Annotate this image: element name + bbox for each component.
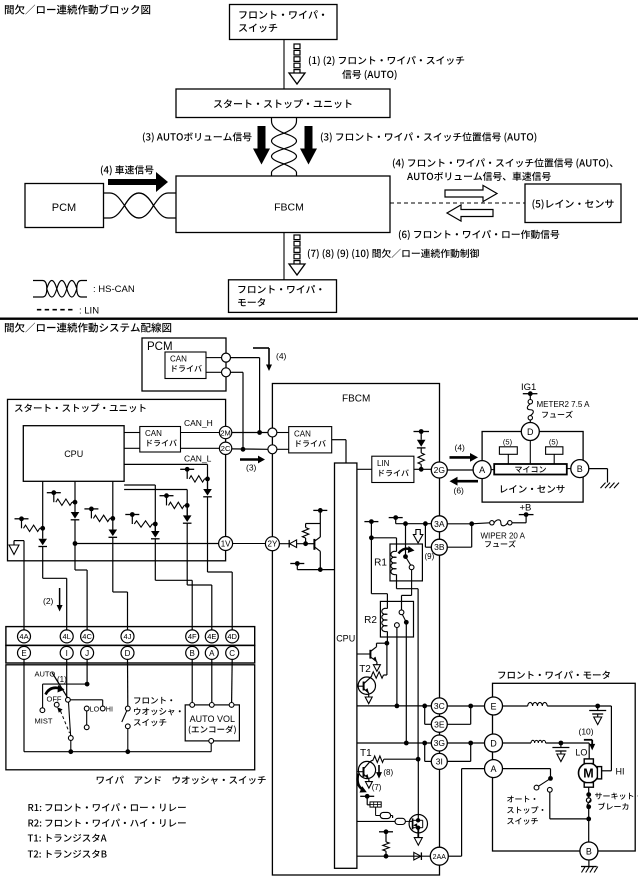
svg-text:C: C — [229, 649, 235, 658]
washer switch — [125, 706, 130, 711]
wire 2G to sensor A — [447, 469, 473, 471]
rain sensor pin D — [521, 423, 539, 441]
box: CAN driver (FBCM) — [289, 427, 332, 453]
transistor T2 (first stage NPN) — [357, 653, 371, 655]
svg-text:(9): (9) — [425, 552, 435, 561]
relay R2 — [380, 601, 413, 637]
wire CAN driver to 2C — [181, 447, 220, 449]
hollow arrow left (6) — [447, 205, 493, 221]
wire CPU to LIN driver — [357, 468, 372, 470]
svg-text:: LIN: : LIN — [79, 306, 99, 317]
connector 1V — [219, 537, 233, 551]
2AA line with diode — [357, 855, 430, 857]
svg-text:IG1: IG1 — [521, 382, 536, 393]
pull-up resistor + clamp diode cell 5 — [160, 495, 174, 497]
svg-text:CAN: CAN — [170, 355, 187, 364]
svg-text:LO: LO — [90, 704, 100, 713]
junction T1/relay bus/MOSFET drain — [416, 757, 421, 762]
box: start-stop unit — [8, 399, 226, 560]
connector pin B — [186, 646, 199, 659]
pull-up resistor + clamp diode cell 2 — [47, 492, 61, 494]
label front washer switch — [134, 697, 172, 704]
pull-up resistor + clamp diode cell 1 — [15, 518, 29, 520]
svg-text:CAN_H: CAN_H — [184, 418, 213, 428]
motor pin E — [485, 697, 503, 715]
wire to R2 coil — [370, 538, 372, 594]
connector 2Y — [265, 537, 279, 551]
svg-text:4F: 4F — [188, 632, 197, 641]
lower pivot contact — [70, 740, 72, 751]
svg-text:4E: 4E — [207, 632, 216, 641]
box: front wiper switch — [230, 5, 338, 40]
wire LIN driver to 2G — [414, 468, 431, 470]
B to chassis ground — [588, 860, 590, 867]
connector pin 4J — [121, 630, 134, 643]
wire col2 to 4C — [74, 544, 76, 571]
wire FBCM to motor — [283, 233, 285, 280]
curved rotation arrow — [46, 688, 61, 695]
connector 3B — [431, 539, 447, 555]
D branch: choke + capacitor + LO brush — [503, 742, 532, 744]
wire col2 to 1V line — [74, 520, 76, 544]
connector row housings — [6, 627, 255, 646]
rail AUTO/J — [43, 683, 88, 685]
connector 2AA — [430, 847, 448, 865]
label (1)(2) front wiper switch signal — [309, 56, 464, 66]
svg-text:E: E — [490, 701, 496, 711]
connector pin 4C — [81, 630, 94, 643]
driver gate 1 (capsule) — [366, 796, 368, 805]
rain sensor pin A — [473, 461, 491, 479]
svg-text:(5): (5) — [549, 438, 559, 447]
R1 contact to R2 — [411, 570, 413, 596]
pull-up resistor + clamp diode cell 4 — [125, 514, 139, 516]
R1 curved arrow — [399, 549, 412, 554]
legend R1/R2/T1/T2 — [28, 803, 185, 811]
contact OFF — [66, 697, 71, 702]
box: CPU (start-stop) — [23, 426, 124, 482]
box: rain sensor — [482, 432, 583, 503]
connector 2G — [431, 462, 447, 478]
svg-text:T2: T2 — [359, 664, 371, 675]
label auto stop switch — [507, 796, 535, 803]
(8) arrow — [378, 765, 380, 773]
svg-text:METER2 7.5 A: METER2 7.5 A — [537, 400, 591, 409]
svg-text:M: M — [583, 767, 593, 781]
svg-text:CAN: CAN — [294, 430, 311, 439]
wire 3C to E — [447, 705, 484, 707]
svg-text:PCM: PCM — [147, 341, 173, 353]
R1 switch common — [403, 554, 408, 559]
svg-text:I: I — [66, 649, 68, 658]
connector 2M — [219, 426, 231, 438]
dashed LIN line FBCM to rain sensor — [390, 202, 525, 204]
E branch: choke + capacitor + HI brush — [503, 705, 528, 707]
svg-text:(5): (5) — [503, 438, 513, 447]
svg-text:(4): (4) — [455, 443, 466, 453]
hollow arrow right (4) — [445, 185, 497, 201]
rain sensor pin B — [571, 460, 589, 478]
wire to R1 coil — [371, 537, 396, 539]
wire col3 to 4J — [112, 537, 114, 592]
connector pin 4F — [186, 630, 199, 643]
switch arm to AUTO — [52, 673, 68, 699]
svg-text:B: B — [586, 846, 592, 856]
svg-text:2Y: 2Y — [268, 540, 278, 549]
svg-text:CAN_L: CAN_L — [184, 454, 212, 464]
wire CPU to gate — [357, 820, 395, 822]
svg-text:FBCM: FBCM — [274, 202, 304, 214]
svg-text:WIPER 20 A: WIPER 20 A — [481, 532, 526, 541]
striped signal arrow (1)(2) — [294, 44, 300, 49]
svg-text:3G: 3G — [434, 738, 445, 748]
wire CPU to col5 — [124, 489, 187, 491]
wire PCM CAN_L to 2C net — [231, 371, 244, 373]
box: start-stop unit — [176, 89, 390, 118]
striped signal arrow (7)-(10) — [294, 235, 300, 240]
svg-text:2C: 2C — [221, 444, 231, 453]
label circuit breaker — [595, 793, 638, 800]
(9) hollow arrow — [413, 530, 423, 544]
internal ground (open triangle) — [13, 541, 15, 545]
svg-text:T1: T1 — [360, 748, 372, 759]
wire 2C to FBCM — [232, 448, 268, 450]
title: block diagram — [5, 4, 150, 14]
wire CPU to col6 — [124, 463, 207, 465]
wire R2 NC to 3C — [396, 628, 398, 706]
+B / WIPER fuse — [447, 523, 471, 525]
connector pin 4L — [60, 630, 73, 643]
wire CAN driver to pin — [206, 357, 222, 359]
connector pin A — [205, 646, 218, 659]
junction 2C/PCM — [241, 447, 246, 452]
connector 3C — [431, 698, 447, 714]
diode at 2Y (cathode left) — [288, 540, 290, 548]
thick arrow down right (3) — [300, 126, 317, 165]
legend HS-CAN twisted pair symbol — [33, 281, 87, 298]
title: system wiring diagram — [5, 323, 171, 333]
svg-text:(3): (3) — [246, 463, 257, 473]
diode to 2AA — [414, 852, 421, 860]
wire gnd to 4A — [23, 541, 25, 630]
label (3) AUTO volume signal — [143, 132, 252, 142]
FBCM pin circle CAN_L — [268, 445, 277, 454]
arrow (3) — [240, 456, 265, 464]
svg-text:4L: 4L — [63, 632, 71, 641]
connector pin 4A — [18, 630, 31, 643]
svg-text:3C: 3C — [434, 701, 445, 711]
3E tie to 3C — [424, 706, 426, 724]
wire CPU to col4 — [124, 484, 155, 486]
label front wiper motor — [498, 671, 610, 679]
box: front wiper motor — [493, 683, 636, 851]
junction R2 coil / T2 collector — [385, 641, 390, 646]
svg-text:HI: HI — [106, 704, 113, 713]
3G/3I lines — [357, 742, 431, 744]
svg-text:MIST: MIST — [35, 717, 53, 726]
svg-text:FBCM: FBCM — [342, 394, 370, 405]
box: microcomputer — [494, 464, 567, 475]
motor pin B — [580, 842, 598, 860]
MOSFET (circled) — [409, 815, 427, 833]
svg-text:4J: 4J — [124, 632, 132, 641]
wire col4 to 4F — [154, 539, 156, 581]
svg-text:R2: R2 — [364, 615, 377, 626]
svg-text:(8): (8) — [383, 768, 393, 777]
svg-text:OFF: OFF — [47, 695, 62, 704]
relay R1 — [390, 544, 422, 581]
svg-text:A: A — [490, 764, 496, 774]
box: LIN driver — [372, 456, 414, 482]
label (7)-(10) control — [308, 249, 479, 259]
svg-text:+B: +B — [520, 503, 532, 514]
svg-text:1V: 1V — [221, 540, 231, 549]
resistor stub near 2AA — [379, 831, 393, 833]
PCM pin circle lower — [222, 368, 231, 377]
svg-text:A: A — [209, 649, 215, 658]
wire R1 contact bus down to T1/MOSFET — [417, 589, 419, 760]
svg-text:2M: 2M — [220, 428, 230, 437]
wire CAN driver to CPU — [332, 439, 346, 441]
wire 3G to D — [447, 742, 484, 744]
wire PCM CAN_H to 2M net — [231, 357, 260, 359]
thick arrow down left (3) — [253, 126, 270, 165]
wire 3A bus to 3B — [424, 524, 426, 548]
svg-text:4D: 4D — [227, 632, 237, 641]
T1 thick curved arrow — [358, 774, 363, 790]
svg-text:AUTO VOL: AUTO VOL — [190, 714, 235, 724]
thick arrow (4) vehicle speed — [108, 172, 168, 192]
R1 coil bottom wire — [396, 575, 398, 589]
connector 3E — [431, 716, 447, 732]
svg-text:(2): (2) — [43, 596, 54, 606]
connector pin 4E — [205, 630, 218, 643]
svg-text:B: B — [577, 464, 583, 474]
section divider — [0, 318, 638, 320]
svg-text:E: E — [21, 649, 26, 658]
label (4) vehicle speed signal — [101, 165, 154, 175]
box: CAN driver (start-stop) — [140, 427, 181, 453]
T2 second stage transistor (circled) — [372, 672, 384, 678]
label (3) switch position signal — [321, 132, 536, 142]
bottom rail — [24, 751, 211, 753]
box: FBCM — [272, 384, 439, 876]
3I external tie — [447, 760, 470, 762]
box: PCM (block diagram) — [25, 184, 104, 228]
HS-CAN twisted pair between PCM and FBCM — [104, 193, 177, 218]
wire D to microcomputer — [529, 441, 531, 465]
connector 3G — [431, 735, 447, 751]
label wiper and washer switch — [97, 776, 266, 785]
svg-text:3E: 3E — [434, 719, 445, 729]
box: CPU (FBCM tall) — [335, 463, 357, 868]
dashed alternate arm — [61, 711, 70, 733]
arrow (4) at 2G — [450, 453, 479, 462]
box: wiper and washer switch — [6, 665, 255, 770]
wire switch to start-stop unit — [283, 40, 285, 90]
connector pin D — [121, 646, 134, 659]
svg-text:(10): (10) — [579, 727, 594, 737]
box: front wiper motor (block diagram) — [229, 280, 337, 313]
legend LIN dashed — [37, 309, 74, 311]
svg-text:2G: 2G — [434, 465, 445, 475]
wire col6 to 4D — [207, 497, 209, 572]
box: FBCM (block diagram) — [176, 176, 390, 233]
svg-text:(4): (4) — [276, 351, 287, 361]
diode+resistor string above 2G — [414, 431, 430, 433]
svg-text:PCM: PCM — [52, 202, 76, 214]
arm to lower pivot — [69, 702, 71, 735]
svg-text:R1: R1 — [374, 558, 387, 569]
motor pin D — [485, 734, 503, 752]
svg-text:3I: 3I — [436, 756, 443, 766]
wire CAN driver to 2M — [181, 432, 220, 434]
circuit breaker — [588, 795, 590, 798]
connector pin I — [60, 646, 73, 659]
3B external tie — [447, 546, 471, 548]
box: AUTO VOL encoder — [185, 705, 239, 741]
arrow (2) — [59, 588, 61, 606]
svg-text:CPU: CPU — [64, 449, 83, 459]
driver gate 2 (capsule) — [395, 818, 405, 824]
wire A to 2AA — [462, 768, 485, 770]
svg-text:3A: 3A — [434, 519, 445, 529]
connector pin 4D — [226, 630, 239, 643]
wire R2 common to 3G — [405, 622, 407, 743]
svg-text:LIN: LIN — [377, 459, 390, 468]
wire 2M to FBCM — [232, 432, 268, 434]
pull-up resistor + clamp diode cell 3 — [84, 508, 98, 510]
box: CAN driver in PCM — [165, 352, 206, 379]
svg-text:D: D — [490, 738, 497, 748]
box: rain sensor (block diagram) — [525, 184, 621, 223]
label (6) low operation signal — [399, 230, 559, 240]
connector 3I — [431, 753, 447, 769]
wire col1 to 4L — [42, 547, 44, 579]
svg-text:: HS-CAN: : HS-CAN — [93, 284, 135, 295]
svg-text:4C: 4C — [82, 632, 92, 641]
svg-text:D: D — [527, 427, 534, 437]
wire to R1 common — [405, 524, 407, 557]
svg-text:LO: LO — [575, 748, 587, 758]
connector pin J — [81, 646, 94, 659]
label rain sensor — [501, 485, 565, 493]
CPU pin columns — [42, 481, 44, 528]
connector 3A — [431, 516, 447, 532]
connector pin E — [18, 646, 31, 659]
3E external tie — [447, 723, 470, 725]
motor pin A — [485, 760, 503, 778]
pull-up resistor + clamp diode cell 6 — [180, 468, 194, 470]
svg-text:B: B — [190, 649, 195, 658]
wires connector row to switch — [23, 659, 25, 751]
MOSFET drain to bus — [417, 759, 419, 814]
svg-text:J: J — [85, 649, 89, 658]
PCM pin circle upper — [222, 353, 231, 362]
wire CPU to CAN driver — [124, 432, 140, 434]
label (4) two-line — [393, 158, 613, 168]
switch pivot (pole 1) — [70, 699, 102, 701]
svg-text:(7): (7) — [372, 783, 382, 792]
junction 2M/PCM — [257, 430, 262, 435]
motor M — [579, 763, 599, 783]
relay supply stub — [364, 521, 378, 523]
supply stub 2 to 3A — [389, 517, 403, 519]
arrow (6) at 2G — [450, 477, 479, 486]
svg-text:4A: 4A — [19, 632, 28, 641]
svg-text:(6): (6) — [454, 486, 465, 496]
box: PCM (schematic) — [142, 338, 226, 391]
connector pin C — [226, 646, 239, 659]
svg-text:HI: HI — [616, 767, 625, 777]
svg-text:CAN: CAN — [145, 429, 162, 438]
svg-text:2AA: 2AA — [433, 854, 447, 861]
B to ground — [589, 468, 608, 470]
svg-text:A: A — [479, 465, 485, 475]
twisted pair between unit and FBCM — [272, 118, 297, 177]
transistor at 2Y — [302, 528, 308, 539]
R2 switch common — [404, 620, 409, 625]
svg-text:CPU: CPU — [336, 634, 355, 644]
FBCM pin circle CAN_H — [268, 428, 277, 437]
auto stop switch — [503, 768, 551, 770]
wire col5 to 4E — [186, 523, 188, 585]
svg-text:D: D — [125, 649, 131, 658]
arrow (4) elbow down — [253, 347, 269, 349]
wire CAN driver to pin — [206, 371, 222, 373]
connector 2C — [219, 442, 231, 454]
wire 1V to 2Y — [233, 543, 266, 545]
R1 switch arm — [406, 557, 411, 566]
1V bus line — [75, 543, 219, 545]
svg-text:3B: 3B — [434, 542, 445, 552]
3C/3E lines — [357, 705, 431, 707]
3I tie to 3G — [424, 743, 426, 761]
